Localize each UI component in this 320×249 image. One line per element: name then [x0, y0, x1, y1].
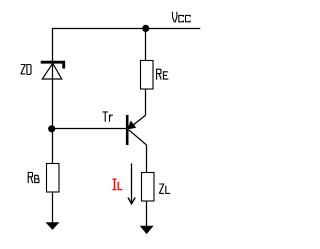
- wire: RB bottom to ground: [52, 192, 54, 224]
- zener diode ZD: triangle: [42, 63, 61, 79]
- wire: left vertical from top rail down through zener to node A: [52, 28, 54, 164]
- arrow: IL current arrow shaft: [131, 163, 133, 202]
- zener diode ZD: cathode bar with right hook: [41, 62, 64, 68]
- label Tr: [103, 112, 113, 122]
- transistor Tr: emitter diagonal (from bar up-right): [129, 115, 146, 128]
- wire: from top dot down to RE: [145, 28, 147, 60]
- label RE: [157, 69, 169, 79]
- wire: collector down to ZL: [146, 145, 148, 173]
- transistor Tr: emitter arrowhead pointing into bar: [128, 122, 134, 128]
- node: top junction dot on Vcc rail: [142, 25, 149, 32]
- label RB: [28, 172, 39, 183]
- resistor ZL body: [142, 173, 155, 202]
- label Vcc: [173, 12, 191, 23]
- wire: ZL bottom to ground: [146, 201, 148, 228]
- wire: top rail from left corner to right end: [52, 28, 200, 30]
- label IL (red): [112, 179, 122, 189]
- wire: RE bottom to transistor emitter bend: [145, 89, 147, 115]
- transistor Tr: base bar: [126, 115, 129, 145]
- arrow: IL current arrowhead (open V): [128, 198, 135, 204]
- wire: base wire from node A to transistor: [52, 128, 127, 130]
- resistor RE body: [141, 61, 154, 90]
- resistor RB body: [47, 164, 60, 193]
- node A: junction dot (zener / RB / base): [48, 125, 55, 132]
- label ZL: [159, 184, 170, 193]
- ground: right ground arrow: [140, 226, 154, 234]
- ground: left ground arrow: [46, 222, 60, 230]
- transistor Tr: collector diagonal (from bar down-right): [129, 130, 147, 145]
- label ZD: [21, 65, 31, 75]
